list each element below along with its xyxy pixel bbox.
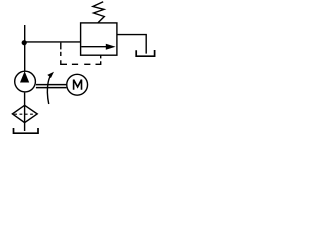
pump flow triangle (up, filled) <box>20 71 29 82</box>
relief valve V1 body <box>81 23 117 55</box>
wire: pump outlet vertical line <box>24 25 26 71</box>
variable displacement arrow (diagonal) <box>47 72 54 104</box>
tank T1 (right) <box>136 50 154 56</box>
junction dot <box>22 40 27 45</box>
pump P1 circle <box>15 71 36 92</box>
wire: main horizontal line to relief valve <box>24 41 80 43</box>
pilot line (dashed) corner dash bottom-left <box>61 60 67 64</box>
relief valve spring <box>93 2 104 23</box>
pilot line dash at tee <box>60 43 62 50</box>
pilot line dash <box>60 52 62 56</box>
wire: valve outlet to right tank <box>117 35 146 54</box>
motor U1 circle <box>67 74 88 95</box>
wire: pump suction through filter to tank <box>24 93 26 131</box>
tank T2 (bottom) <box>14 128 39 133</box>
filter F1 diamond <box>12 105 37 122</box>
pilot line dash <box>84 63 90 65</box>
pilot line dash <box>72 63 78 65</box>
drive shaft (pump-motor, double line) <box>36 85 67 88</box>
relief valve flow arrow <box>81 44 115 50</box>
motor label M <box>74 80 82 90</box>
pilot line (dashed) corner dash near valve <box>96 61 101 64</box>
pilot line stub below valve <box>100 55 102 58</box>
filter F1 element (dashed) <box>14 113 35 115</box>
